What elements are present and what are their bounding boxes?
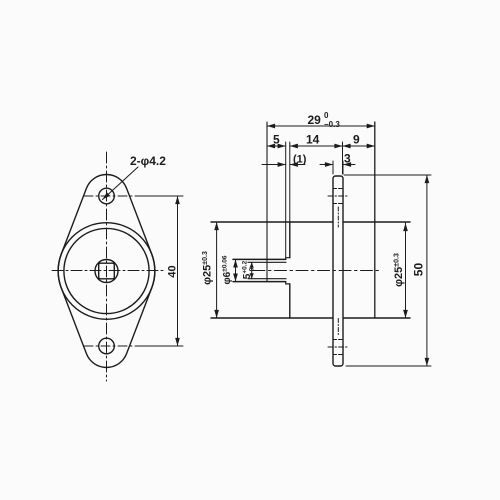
dim 14 line [290,145,343,147]
front view: square hole [99,263,115,279]
side view: boss phi6 outline [233,259,286,281]
label 50 rotated [412,263,426,277]
svg-text:φ6±0.06: φ6±0.06 [222,255,234,284]
front view: top mounting hole [99,188,115,204]
top dims: extension verticals [286,142,343,258]
svg-text:−0.3: −0.3 [324,120,340,129]
dim 9 line [343,145,375,147]
svg-text:14: 14 [306,133,320,147]
svg-text:5+0.20: 5+0.20 [242,260,256,279]
svg-text:9: 9 [353,133,360,147]
front view: flange outline [58,175,155,368]
flange bottom hole hidden lines [333,340,343,355]
dim (1) leads [262,164,286,166]
svg-text:50: 50 [412,263,426,277]
front view: horizontal centerline [52,270,163,272]
label phi6 rotated [222,255,234,284]
svg-text:φ25±0.3: φ25±0.3 [393,253,405,287]
flange bottom hole centerline [328,346,348,348]
dim 3 leads [320,164,333,166]
svg-text:3: 3 [344,152,351,166]
dim phi6 line [235,259,237,281]
side view: collar jog [286,258,290,284]
leader for 2-phi4.2 [103,167,139,200]
svg-text:5: 5 [273,133,280,147]
dim phi25 right line [405,223,407,318]
side view: body outline top/bottom edges with phi25 extension lines [211,222,410,318]
front view: outer rubber circle [58,223,155,320]
label phi25 left rotated [202,251,214,285]
svg-text:40: 40 [167,265,179,277]
flange top hole hidden lines [333,189,343,204]
front view: vertical centerline [106,152,108,381]
svg-text:2-φ4.2: 2-φ4.2 [130,154,166,168]
front view: center boss circle [95,260,118,283]
dim phi25 left line [216,222,218,318]
dim 5 top line [267,145,286,147]
side view: flange plate edge view [333,176,343,366]
svg-text:0: 0 [324,111,329,120]
dim 50 line [426,175,428,366]
dim 40: dimension line [177,196,179,346]
svg-text:φ25±0.3: φ25±0.3 [202,251,214,285]
flange bottom vertical centerline mark [337,319,339,336]
dim 5 +0.2 line [251,262,253,278]
dim 29 line [267,125,375,127]
front view: bottom hole centerline [84,345,136,347]
label phi25 right rotated [393,253,405,287]
svg-text:(1): (1) [293,154,307,166]
flange top hole centerline [328,195,348,197]
side view: boss left face + ext line [266,122,268,282]
label 5 +0.2/0 rotated [242,260,256,279]
text labels [130,111,426,287]
front view: inner rubber circle [64,228,149,313]
side view: boss square hole lines [248,262,286,278]
svg-text:29: 29 [308,113,322,127]
side view: body left edge [289,222,291,318]
side view: main centerline [253,270,381,272]
flange top vertical centerline mark [337,207,339,227]
dim 40: extension lines [136,196,183,346]
dim 50: extension lines [344,175,431,366]
front view: top hole centerline [84,195,136,197]
label 40 rotated [167,265,179,277]
side view: body right edge [374,122,376,318]
front view: bottom mounting hole [99,338,115,354]
